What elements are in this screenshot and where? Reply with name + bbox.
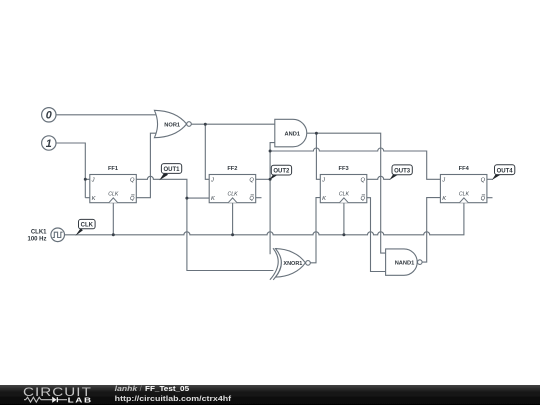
wire FF4 Q to OUT4 — [487, 178, 493, 180]
wire node0 to NOR1 top input — [56, 114, 157, 116]
junction FF2 CLK on bus — [231, 233, 234, 236]
junction FF3 CLK on bus — [342, 233, 345, 236]
svg-text:http://circuitlab.com/ctrx4hf: http://circuitlab.com/ctrx4hf — [115, 394, 232, 403]
footer bar — [0, 385, 540, 405]
wire branch to FF2 K — [187, 197, 209, 199]
svg-text:OUT4: OUT4 — [497, 168, 514, 174]
junction FF1 Q net / FF2 K — [185, 197, 188, 200]
wire AND1 out to NAND1 in1 — [316, 133, 385, 253]
svg-text:J: J — [321, 178, 325, 184]
wire node1 to FF1 J/K — [56, 143, 90, 198]
wire FF2 Q to junction — [256, 178, 270, 180]
flip-flop FF1 — [90, 166, 137, 203]
svg-text:FF4: FF4 — [459, 166, 470, 172]
svg-text:Q: Q — [130, 196, 135, 202]
wire FF3 Qbar to NAND1 in2 — [367, 198, 386, 272]
svg-text:XNOR1: XNOR1 — [283, 261, 302, 267]
svg-text:FF2: FF2 — [227, 166, 237, 172]
and gate AND1 — [275, 119, 307, 147]
clock flag CLK — [75, 219, 95, 235]
flip-flop FF2 — [209, 166, 256, 203]
svg-text:Q: Q — [249, 178, 254, 184]
svg-text:CLK: CLK — [108, 192, 119, 198]
svg-text:OUT2: OUT2 — [273, 169, 290, 175]
svg-text:Q: Q — [130, 178, 135, 184]
svg-text:CLK: CLK — [81, 223, 94, 229]
svg-text:J: J — [441, 178, 445, 184]
junction FF1 CLK on bus — [112, 233, 115, 236]
svg-text:Q: Q — [249, 196, 254, 202]
svg-text:FF_Test_05: FF_Test_05 — [145, 384, 189, 393]
svg-text:CLK: CLK — [228, 192, 239, 198]
footer title text — [115, 384, 232, 403]
wire NOR1 out to AND1 in1 and FF2 J — [191, 124, 274, 179]
svg-text:J: J — [210, 178, 214, 184]
junction AND1 out branch — [315, 132, 318, 135]
wire CLK bus with hops — [65, 203, 464, 235]
svg-text:CLK1: CLK1 — [31, 229, 47, 235]
svg-text:100 Hz: 100 Hz — [27, 237, 46, 243]
svg-text:Q: Q — [481, 196, 486, 202]
output flag OUT4 — [492, 165, 515, 180]
nand gate NAND1 — [386, 249, 423, 275]
junction row151 branch — [269, 150, 272, 153]
nor gate NOR1 — [154, 110, 191, 137]
wire FF1 CLK to bus — [112, 203, 114, 235]
clock source CLK1 — [27, 228, 64, 243]
svg-text:Q: Q — [360, 178, 365, 184]
wire FF1 Qbar to NOR1 bottom input — [136, 133, 157, 198]
wire XNOR1 out to FF3 K — [310, 198, 320, 263]
svg-text:OUT3: OUT3 — [394, 168, 411, 174]
svg-text:Q: Q — [481, 178, 486, 184]
wire AND1 out to FF3 J — [307, 133, 321, 179]
output flag OUT1 — [159, 164, 181, 181]
junction at node1/FF1 J — [84, 178, 87, 181]
logo circuitlab — [23, 386, 93, 404]
svg-text:0: 0 — [46, 110, 52, 122]
svg-text:FF1: FF1 — [108, 166, 118, 172]
svg-text:LAB: LAB — [68, 396, 93, 404]
node 0 — [42, 108, 56, 122]
node 1 — [42, 136, 56, 150]
wire FF4 Qbar stub — [487, 197, 493, 199]
junction NOR1 out branch — [204, 123, 207, 126]
wire row y151 to FF4 J with hops — [270, 148, 440, 179]
wire FF3 CLK to bus — [343, 203, 345, 235]
wire FF2 CLK to bus — [232, 203, 234, 235]
wire FF1 Q to OUT1 corner with hop over x150.4 — [136, 176, 273, 270]
output flag OUT2 — [269, 165, 291, 180]
svg-text:lanhk: lanhk — [115, 384, 139, 393]
svg-text:J: J — [91, 178, 95, 184]
svg-text:NAND1: NAND1 — [395, 261, 415, 267]
output flag OUT3 — [389, 165, 412, 180]
svg-text:FF3: FF3 — [339, 166, 349, 172]
svg-text:1: 1 — [46, 138, 52, 150]
wire FF2 Qbar stub — [256, 197, 262, 199]
svg-text:Q: Q — [360, 196, 365, 202]
svg-text:OUT1: OUT1 — [163, 167, 180, 173]
wire FF3 Q to OUT3 with hop — [367, 176, 391, 179]
flip-flop FF3 — [320, 166, 367, 203]
wire vertical AND1 in2 / XNOR1 in1 — [270, 143, 275, 255]
svg-text:AND1: AND1 — [285, 132, 301, 138]
xnor gate XNOR1 — [270, 248, 310, 280]
svg-text:CLK: CLK — [339, 192, 350, 198]
svg-text:NOR1: NOR1 — [164, 123, 180, 129]
svg-text:CLK: CLK — [459, 192, 470, 198]
junction FF2 Q / OUT2 — [269, 178, 272, 181]
flip-flop FF4 — [440, 166, 487, 203]
wire NAND1 out to FF4 K — [422, 198, 440, 263]
